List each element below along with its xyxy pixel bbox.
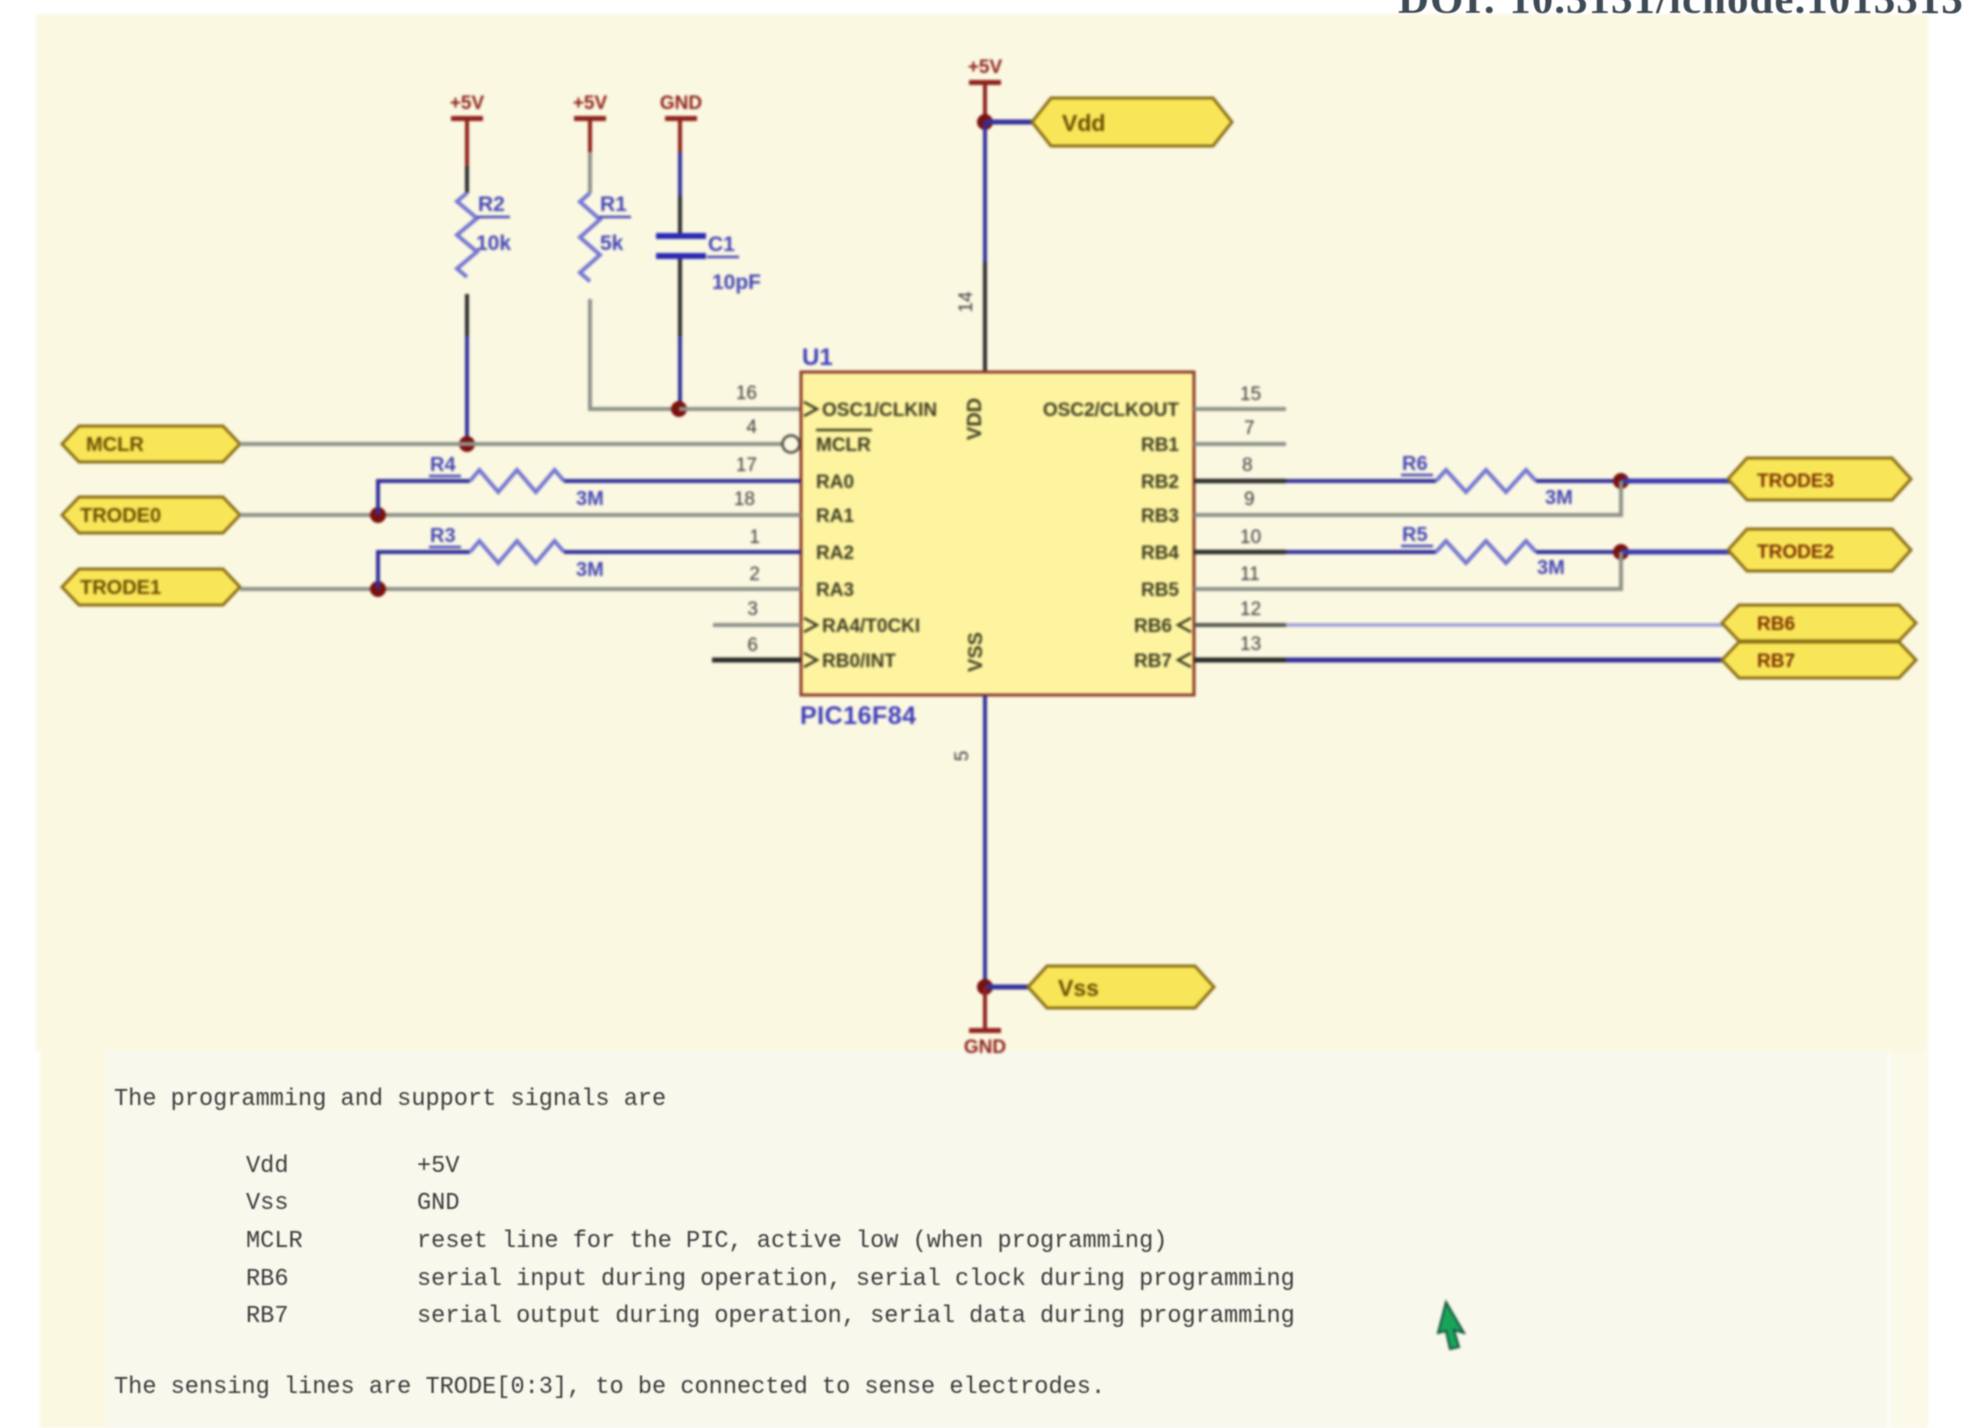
svg-text:3M: 3M (576, 559, 604, 581)
svg-text:U1: U1 (802, 344, 833, 371)
svg-text:C1: C1 (708, 233, 735, 256)
svg-text:RB0/INT: RB0/INT (822, 651, 896, 672)
svg-text:+5V: +5V (968, 57, 1003, 78)
wire +5V to R1 (588, 121, 592, 193)
wire pin 9 to TRODE3 riser (1194, 481, 1621, 515)
svg-text:7: 7 (1244, 418, 1255, 439)
wire R6 to TRODE3 junction (1536, 479, 1621, 483)
wire TRODE1 label to pin 2 (240, 587, 801, 591)
junction TRODE0/R4 (370, 507, 386, 523)
R4 reference label (429, 454, 461, 476)
svg-text:10k: 10k (476, 232, 511, 255)
junction R2/MCLR (459, 436, 475, 452)
wire R2 to MCLR net (465, 294, 469, 443)
svg-text:8: 8 (1242, 455, 1253, 476)
svg-text:MCLR: MCLR (86, 434, 144, 456)
mouse cursor (green arrow) (1438, 1302, 1464, 1349)
resistor R3 (470, 541, 564, 563)
svg-text:RA4/T0CKI: RA4/T0CKI (822, 616, 920, 637)
svg-text:R2: R2 (478, 193, 505, 216)
svg-text:1: 1 (749, 527, 760, 548)
svg-text:RA2: RA2 (816, 543, 854, 564)
svg-text:10: 10 (1240, 527, 1261, 548)
wire C1 bottom to OSC1 node (678, 259, 682, 406)
svg-text:RB6: RB6 (1134, 616, 1172, 637)
svg-text:R6: R6 (1402, 453, 1428, 475)
wire stub pin 7 (1194, 442, 1286, 446)
resistor R1 (580, 193, 600, 281)
svg-text:R1: R1 (600, 193, 627, 216)
wire R5 to TRODE2 junction (1536, 550, 1621, 554)
junction TRODE2 node (1613, 544, 1629, 560)
svg-text:R4: R4 (430, 454, 456, 476)
svg-text:RB3: RB3 (1141, 506, 1179, 527)
text: Vdd row (246, 1153, 288, 1180)
svg-text:RB6: RB6 (1757, 614, 1795, 635)
junction Vdd node (977, 114, 993, 130)
power +5V symbol (above Vdd) (968, 57, 1003, 85)
svg-text:TRODE1: TRODE1 (80, 577, 161, 599)
R6 reference label (1401, 453, 1433, 475)
svg-text:RA1: RA1 (816, 506, 854, 527)
net label TRODE0 (62, 497, 240, 533)
wire Vdd junction to Vdd label (985, 120, 1034, 125)
R5 reference label (1401, 524, 1433, 546)
svg-text:RB7: RB7 (1757, 651, 1795, 672)
svg-text:RB7: RB7 (1134, 651, 1172, 672)
svg-text:RB2: RB2 (1141, 472, 1179, 493)
svg-text:5: 5 (952, 751, 973, 762)
net label TRODE2 (1728, 529, 1911, 571)
svg-text:Vss: Vss (1058, 975, 1099, 1001)
wire stub pin 6 (712, 658, 801, 663)
text: MCLR row (246, 1228, 303, 1255)
resistor R4 (470, 470, 564, 492)
R2 value labels (476, 193, 511, 255)
C1 value labels (707, 233, 761, 294)
pin name RB7 with clock arrow (1134, 651, 1191, 672)
wire pin 5 VSS down (983, 695, 987, 987)
text: programming and support signals heading (114, 1086, 666, 1113)
svg-text:RA0: RA0 (816, 472, 854, 493)
capacitor C1 (656, 236, 706, 256)
net label TRODE1 (62, 569, 240, 605)
svg-text:2: 2 (749, 564, 760, 585)
wire R4 to pin 17 (564, 479, 801, 483)
svg-text:16: 16 (736, 383, 757, 404)
svg-text:3M: 3M (1545, 487, 1573, 509)
wire stub pin 3 (713, 623, 801, 627)
power +5V symbol (above R2) (450, 93, 485, 121)
junction C1/R1/OSC1 (671, 401, 687, 417)
wire riser TRODE0 to R4 (378, 481, 470, 515)
DOI header text (clipped at top) (1398, 0, 1964, 24)
svg-text:15: 15 (1240, 384, 1261, 405)
wire pin 11 to TRODE2 riser (1194, 552, 1621, 589)
IC U1 PIC16F84 body (801, 372, 1194, 695)
junction TRODE1/R3 (370, 581, 386, 597)
wire Vss junction to GND (983, 987, 987, 1028)
pin name RB0/INT with clock arrow (804, 651, 896, 672)
svg-text:MCLR: MCLR (816, 435, 871, 456)
svg-text:3: 3 (747, 599, 758, 620)
net label Vdd (1032, 98, 1232, 146)
svg-text:5k: 5k (600, 232, 624, 255)
wire +5V to Vdd junction (983, 85, 987, 122)
wire junction to TRODE3 label (1621, 479, 1730, 484)
text: Vss row (246, 1190, 288, 1217)
resistor R6 (1436, 470, 1536, 492)
net label MCLR (left) (62, 426, 240, 462)
R3 reference label (429, 525, 461, 547)
wire OSC1 node to pin 16 (679, 407, 801, 411)
junction Vss node (977, 979, 993, 995)
wire TRODE0 label to pin 18 (240, 513, 801, 517)
MCLR inverting bubble (783, 436, 800, 453)
svg-text:Vdd: Vdd (1062, 110, 1105, 136)
wire pin 10 to R5 (1194, 550, 1436, 555)
power GND symbol (bottom) (964, 1028, 1006, 1058)
svg-text:17: 17 (736, 455, 757, 476)
R1 value labels (599, 193, 631, 255)
svg-text:GND: GND (660, 93, 702, 114)
pin name RB6 with clock arrow (1134, 616, 1191, 637)
svg-text:TRODE2: TRODE2 (1757, 542, 1834, 563)
svg-text:11: 11 (1240, 564, 1260, 585)
text: RB6 row (246, 1266, 288, 1293)
wire riser TRODE1 to R3 (378, 552, 470, 589)
svg-text:VSS: VSS (965, 632, 987, 672)
svg-text:VDD: VDD (964, 398, 986, 440)
pin name MCLR with overline (816, 430, 872, 456)
wire R3 to pin 1 (564, 550, 801, 554)
svg-text:RB4: RB4 (1141, 543, 1179, 564)
svg-text:3M: 3M (576, 488, 604, 510)
svg-text:+5V: +5V (450, 93, 485, 114)
wire +5V to R2 (465, 121, 469, 193)
svg-text:14: 14 (956, 291, 977, 313)
svg-text:18: 18 (734, 489, 755, 510)
text: sensing lines note (114, 1374, 1105, 1401)
net label Vss (1028, 966, 1214, 1008)
svg-text:12: 12 (1240, 599, 1261, 620)
junction TRODE3 node (1613, 473, 1629, 489)
wire stub pin 15 (1194, 407, 1286, 411)
svg-text:R3: R3 (430, 525, 456, 547)
svg-text:OSC2/CLKOUT: OSC2/CLKOUT (1043, 400, 1180, 421)
svg-text:R5: R5 (1402, 524, 1428, 546)
svg-text:4: 4 (746, 417, 757, 438)
svg-text:+5V: +5V (573, 93, 608, 114)
wire junction to Vss label (985, 985, 1030, 990)
net label RB7 (1722, 642, 1916, 678)
svg-text:13: 13 (1240, 634, 1261, 655)
power GND symbol (above C1) (660, 93, 702, 121)
svg-text:TRODE3: TRODE3 (1757, 471, 1834, 492)
svg-text:RB5: RB5 (1141, 580, 1179, 601)
net label TRODE3 (1728, 458, 1911, 500)
svg-text:RA3: RA3 (816, 580, 854, 601)
svg-text:3M: 3M (1537, 557, 1565, 579)
text: RB7 row (246, 1303, 288, 1330)
svg-text:OSC1/CLKIN: OSC1/CLKIN (822, 400, 937, 421)
wire R1 down and right to OSC1 node (590, 299, 679, 409)
svg-text:GND: GND (964, 1037, 1006, 1058)
svg-text:TRODE0: TRODE0 (80, 505, 161, 527)
wire pin 8 to R6 (1194, 479, 1436, 484)
pin name RA4/T0CKI with clock arrow (804, 616, 920, 637)
svg-text:9: 9 (1244, 489, 1255, 510)
wire junction to TRODE2 label (1621, 550, 1730, 555)
svg-text:PIC16F84: PIC16F84 (800, 702, 917, 730)
svg-text:6: 6 (747, 635, 758, 656)
wire GND to C1 top (678, 121, 682, 233)
svg-text:10pF: 10pF (712, 271, 761, 294)
wire Vdd junction down to pin 14 (983, 122, 987, 372)
wire pin 12 to RB6 label (1194, 623, 1724, 627)
svg-text:RB1: RB1 (1141, 435, 1179, 456)
pin name OSC1/CLKIN with clock arrow (804, 400, 937, 421)
resistor R5 (1436, 541, 1536, 563)
resistor R2 (457, 193, 477, 277)
wire pin 13 to RB7 label (1194, 658, 1724, 663)
power +5V symbol (above R1) (573, 93, 608, 121)
net label RB6 (1722, 605, 1916, 641)
wire MCLR label to pin 4 (240, 442, 782, 446)
